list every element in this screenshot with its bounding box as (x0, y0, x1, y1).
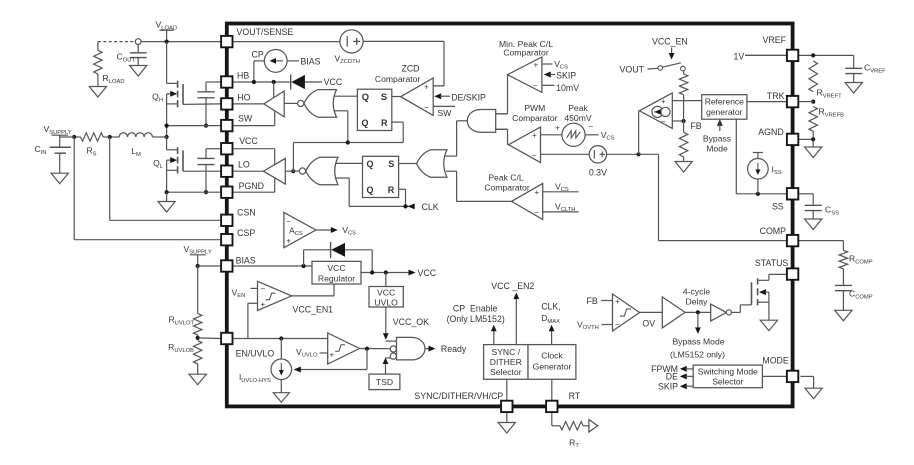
svg-text:−: − (661, 117, 666, 126)
svg-text:VREF: VREF (763, 35, 787, 45)
svg-text:+: + (533, 61, 538, 70)
svg-text:SYNC/DITHER/VH/CP: SYNC/DITHER/VH/CP (414, 391, 503, 401)
svg-text:+: + (424, 82, 429, 91)
svg-text:+: + (286, 236, 291, 245)
svg-text:−: − (534, 208, 539, 217)
svg-text:+: + (532, 131, 537, 140)
svg-text:UVLO: UVLO (374, 297, 398, 307)
svg-text:SKIP: SKIP (556, 71, 576, 81)
svg-text:VCC: VCC (324, 77, 343, 87)
svg-text:Delay: Delay (686, 296, 709, 306)
svg-text:VCC _EN2: VCC _EN2 (491, 281, 534, 291)
svg-text:+: + (661, 97, 666, 106)
svg-text:VCC_EN: VCC_EN (652, 37, 688, 47)
svg-text:R: R (388, 185, 395, 195)
svg-text:Selector: Selector (712, 377, 743, 387)
svg-text:Clock: Clock (541, 351, 563, 361)
svg-text:+: + (555, 124, 560, 133)
svg-text:Q: Q (362, 91, 369, 102)
svg-text:10mV: 10mV (556, 83, 579, 93)
svg-text:0.3V: 0.3V (589, 167, 607, 177)
svg-text:BIAS: BIAS (236, 255, 256, 265)
svg-text:TRK: TRK (767, 91, 785, 101)
svg-text:PWM: PWM (524, 103, 545, 113)
svg-text:+: + (329, 351, 334, 360)
svg-text:−: − (532, 151, 537, 160)
svg-text:LO: LO (238, 159, 250, 169)
svg-text:S: S (381, 91, 387, 102)
svg-text:DE: DE (666, 372, 678, 382)
svg-text:generator: generator (706, 107, 743, 117)
svg-text:−: − (615, 321, 620, 330)
svg-text:VCC_OK: VCC_OK (393, 317, 429, 327)
svg-text:OV: OV (642, 318, 655, 328)
svg-text:Comparator: Comparator (512, 113, 558, 123)
svg-text:HB: HB (237, 70, 249, 80)
svg-text:STATUS: STATUS (755, 258, 789, 268)
svg-text:Bypass Mode: Bypass Mode (672, 336, 724, 346)
svg-text:BIAS: BIAS (301, 57, 321, 67)
svg-text:RT: RT (569, 391, 581, 401)
svg-text:VCC: VCC (377, 287, 395, 297)
svg-text:Comparator: Comparator (375, 74, 421, 84)
svg-text:TSD: TSD (376, 377, 393, 387)
svg-text:Generator: Generator (533, 362, 572, 372)
svg-text:Ready: Ready (441, 344, 467, 354)
svg-text:EN/UVLO: EN/UVLO (236, 349, 275, 359)
svg-text:(LM5152 only): (LM5152 only) (670, 349, 725, 359)
svg-text:VCC: VCC (239, 136, 258, 146)
svg-text:+: + (260, 300, 265, 309)
svg-text:Q: Q (362, 118, 369, 128)
svg-text:SS: SS (772, 202, 784, 212)
svg-text:ZCD: ZCD (401, 64, 419, 74)
svg-text:Peak C/L: Peak C/L (488, 172, 524, 182)
svg-text:Regulator: Regulator (318, 274, 355, 284)
svg-text:Peak: Peak (568, 103, 588, 113)
svg-text:CSN: CSN (237, 208, 256, 218)
svg-text:SW: SW (238, 113, 253, 123)
svg-text:SKIP: SKIP (658, 381, 678, 391)
svg-text:Q: Q (367, 159, 374, 169)
svg-text:VCC: VCC (327, 263, 345, 273)
svg-text:CP: CP (252, 50, 264, 60)
svg-text:S: S (388, 159, 394, 169)
svg-text:Mode: Mode (706, 144, 728, 154)
svg-text:(Only LM5152): (Only LM5152) (447, 314, 505, 324)
svg-text:FB: FB (587, 296, 598, 306)
svg-text:1V: 1V (734, 51, 745, 61)
svg-text:Reference: Reference (705, 96, 744, 106)
svg-text:VOUT: VOUT (620, 65, 645, 75)
svg-text:Q: Q (367, 185, 374, 195)
svg-text:Comparator: Comparator (484, 183, 530, 193)
svg-text:SYNC /: SYNC / (491, 347, 520, 357)
svg-text:+: + (615, 297, 620, 306)
svg-text:AGND: AGND (758, 127, 783, 137)
svg-text:VOUT/SENSE: VOUT/SENSE (237, 27, 294, 37)
svg-text:CLK: CLK (422, 202, 439, 212)
svg-text:FB: FB (690, 121, 701, 131)
svg-text:4-cycle: 4-cycle (683, 286, 710, 296)
svg-text:−: − (424, 103, 429, 112)
svg-text:VCC_EN1: VCC_EN1 (293, 304, 334, 314)
svg-text:PGND: PGND (239, 181, 264, 191)
svg-text:Bypass: Bypass (703, 133, 731, 143)
svg-text:COMP: COMP (760, 226, 787, 236)
svg-text:MODE: MODE (762, 356, 789, 366)
svg-text:CLK,: CLK, (541, 302, 561, 312)
svg-text:CP Enable: CP Enable (453, 304, 498, 314)
svg-text:+: + (534, 188, 539, 197)
svg-text:−: − (533, 82, 538, 91)
svg-text:450mV: 450mV (564, 113, 591, 123)
svg-text:CSP: CSP (237, 228, 255, 238)
svg-text:DE/SKIP: DE/SKIP (451, 92, 486, 102)
svg-text:DITHER: DITHER (490, 357, 522, 367)
svg-text:VCC: VCC (418, 268, 437, 278)
svg-text:Selector: Selector (490, 367, 522, 377)
svg-text:SW: SW (438, 108, 453, 118)
svg-text:−: − (260, 285, 265, 294)
svg-text:R: R (381, 118, 388, 128)
svg-text:Switching Mode: Switching Mode (698, 366, 758, 376)
svg-text:HO: HO (237, 93, 250, 103)
svg-text:Comparator: Comparator (503, 48, 549, 58)
